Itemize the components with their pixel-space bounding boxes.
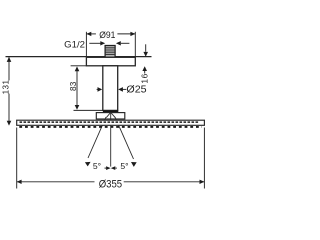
- G1/2 leader arrow: [89, 41, 105, 45]
- dim 5deg left arrow: [105, 166, 111, 170]
- dim 83 line: [75, 66, 80, 109]
- dim 131 line: [7, 57, 12, 126]
- svg-text:Ø91: Ø91: [99, 29, 115, 40]
- svg-text:131: 131: [2, 80, 11, 95]
- svg-text:G1/2: G1/2: [64, 40, 85, 50]
- dim 5deg right arrow: [111, 166, 117, 170]
- svg-text:5°: 5°: [120, 161, 128, 171]
- dim O25 left arrow: [97, 87, 103, 92]
- dim 83 top extension line: [71, 65, 87, 67]
- dim O91 line right w/ arrow: [117, 32, 135, 36]
- spray line right: [115, 117, 137, 167]
- svg-text:16: 16: [140, 73, 150, 84]
- nozzle dashed line: [20, 121, 200, 123]
- right leader arrow at stub: [116, 41, 129, 45]
- connector block: [96, 113, 125, 119]
- dim O355 line right: [124, 180, 205, 184]
- pipe: [103, 66, 118, 111]
- dim O91 line left w/ arrow: [86, 32, 96, 36]
- dim 83 bottom extension line: [74, 109, 103, 111]
- dim O355 line left: [17, 180, 95, 184]
- dim O25 right arrow: [118, 87, 126, 92]
- dim O355 left extension line: [16, 128, 18, 189]
- svg-text:Ø355: Ø355: [99, 179, 122, 191]
- svg-text:Ø25: Ø25: [126, 85, 147, 96]
- spray line left: [85, 117, 106, 166]
- svg-text:83: 83: [69, 81, 78, 91]
- svg-text:5°: 5°: [93, 161, 101, 171]
- dim 16 bottom arrow: [142, 66, 147, 73]
- shower head panel: [17, 120, 205, 125]
- spray line center: [110, 113, 112, 167]
- dim 16 top arrow: [143, 44, 148, 56]
- flange plate: [86, 57, 135, 66]
- sleeve (dark band): [103, 110, 118, 112]
- dim O91 right extension line: [134, 32, 136, 58]
- nozzle teeth: [19, 126, 202, 128]
- dim O91 left extension line: [85, 32, 87, 58]
- ceiling line: [6, 56, 152, 58]
- spray cone right inner leg: [111, 113, 115, 118]
- spray cone left inner leg: [106, 113, 110, 118]
- dim O355 right extension line: [203, 128, 205, 189]
- threaded stub G1/2: [105, 46, 115, 58]
